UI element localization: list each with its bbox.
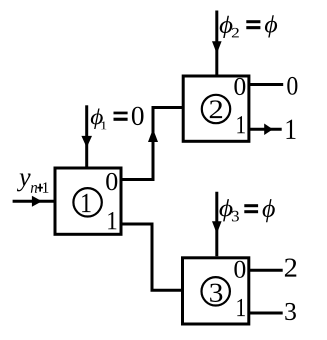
arrowhead phi1 pointing down bbox=[81, 136, 92, 148]
equals sign of phi3 = phi bbox=[244, 204, 258, 207]
subscript 3 of phi3 bbox=[232, 211, 239, 222]
subscript n of y_n+1 bbox=[31, 185, 37, 193]
arrowhead on input wire bbox=[32, 196, 42, 207]
output label 2 bbox=[285, 258, 296, 276]
digit 1 inside circle of box 1 bbox=[82, 194, 91, 212]
phi of label phi1 = 0 bbox=[91, 109, 103, 130]
wire phi2 stem into box 2 top bbox=[215, 11, 218, 75]
pin label 0 of box 3 bbox=[234, 261, 245, 278]
box 2 (demultiplexer 2) bbox=[183, 76, 249, 141]
label y of y_n+1 bbox=[17, 174, 31, 192]
output label 0 bbox=[287, 77, 297, 95]
pin label 1 of box 2 bbox=[237, 116, 245, 133]
arrowhead phi3 pointing down bbox=[212, 221, 222, 233]
arrowhead phi2 pointing down bbox=[212, 41, 222, 53]
pin label 0 of box 1 bbox=[106, 173, 117, 190]
digit 2 inside circle of box 2 bbox=[210, 100, 222, 118]
value phi of label phi2 = phi bbox=[265, 15, 277, 37]
wire box2 output 1 bbox=[249, 128, 282, 131]
phi of label phi3 = phi bbox=[220, 199, 233, 221]
circle around label 3 bbox=[202, 277, 230, 305]
wire box1 output 0 to box2 input bbox=[121, 108, 183, 180]
wire input y_n+1 into box 1 bbox=[13, 200, 54, 203]
digit 3 inside circle of box 3 bbox=[210, 284, 222, 302]
output label 3 bbox=[285, 303, 296, 320]
subscript 2 of phi2 bbox=[232, 28, 239, 38]
equals sign of phi1 = 0 bbox=[114, 112, 128, 115]
wire box2 output 0 bbox=[249, 83, 283, 86]
arrowhead pointing up on wire to box2 bbox=[148, 129, 158, 142]
output label 1 bbox=[286, 120, 295, 139]
pin label 1 of box 1 bbox=[108, 212, 116, 229]
box 3 (demultiplexer 3) bbox=[183, 258, 249, 324]
box 1 (demultiplexer 1) bbox=[55, 168, 121, 234]
subscript 1 of phi1 bbox=[101, 121, 106, 129]
pin label 1 of box 3 bbox=[237, 299, 245, 316]
value 0 of label phi1 = 0 bbox=[132, 107, 144, 125]
wire phi1 stem into box 1 top bbox=[85, 105, 88, 166]
equals sign of phi2 = phi bbox=[246, 20, 260, 23]
wire phi3 stem into box 3 top bbox=[215, 192, 218, 256]
subscript + of y_n+1 bbox=[37, 187, 43, 189]
phi of label phi2 = phi bbox=[220, 16, 233, 38]
circle around label 1 bbox=[73, 188, 101, 216]
wire box1 output 1 to box3 input bbox=[121, 224, 183, 290]
pin label 0 of box 2 bbox=[234, 78, 245, 95]
value phi of label phi3 = phi bbox=[263, 199, 275, 222]
wire box3 output 0 bbox=[249, 269, 283, 272]
circle around label 2 bbox=[202, 95, 230, 123]
wire box3 output 1 bbox=[249, 312, 283, 315]
arrowhead on box2 output 1 bbox=[264, 124, 273, 136]
subscript 1 of y_n+1 bbox=[43, 182, 49, 192]
